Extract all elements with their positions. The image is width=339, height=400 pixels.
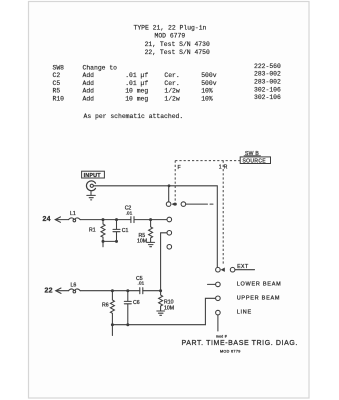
svg-text:C6: C6 bbox=[133, 300, 140, 306]
svg-text:Change to: Change to bbox=[83, 64, 118, 71]
svg-text:.01 µf: .01 µf bbox=[125, 80, 148, 87]
svg-text:222-560: 222-560 bbox=[254, 63, 281, 70]
svg-text:INPUT: INPUT bbox=[84, 173, 102, 179]
svg-text:As per schematic attached.: As per schematic attached. bbox=[84, 113, 184, 120]
svg-text:.01 µf: .01 µf bbox=[125, 72, 148, 79]
svg-text:PART. TIME-BASE TRIG. DIAG.: PART. TIME-BASE TRIG. DIAG. bbox=[182, 340, 298, 347]
svg-text:.01: .01 bbox=[138, 281, 145, 287]
svg-text:Add: Add bbox=[83, 80, 95, 87]
svg-text:Add: Add bbox=[83, 88, 95, 95]
svg-text:F: F bbox=[178, 165, 181, 171]
svg-text:TYPE 21, 22 Plug-in: TYPE 21, 22 Plug-in bbox=[134, 24, 207, 31]
svg-text:10 meg: 10 meg bbox=[125, 88, 148, 95]
svg-text:302-106: 302-106 bbox=[254, 86, 281, 93]
svg-text:10%: 10% bbox=[201, 96, 213, 103]
svg-text:EXT: EXT bbox=[237, 264, 249, 270]
svg-text:1/2w: 1/2w bbox=[164, 88, 180, 95]
svg-text:R: R bbox=[224, 164, 228, 170]
svg-text:L6: L6 bbox=[71, 282, 77, 288]
svg-text:500v: 500v bbox=[201, 80, 217, 87]
svg-text:1: 1 bbox=[219, 164, 222, 170]
svg-text:283-002: 283-002 bbox=[254, 79, 281, 86]
svg-text:283-002: 283-002 bbox=[254, 71, 281, 78]
svg-text:Add: Add bbox=[83, 96, 95, 103]
svg-text:.01: .01 bbox=[126, 210, 133, 216]
svg-text:UPPER BEAM: UPPER BEAM bbox=[237, 295, 281, 301]
svg-text:SW B: SW B bbox=[245, 151, 259, 157]
svg-text:C1: C1 bbox=[122, 228, 129, 234]
svg-text:SW8: SW8 bbox=[53, 64, 65, 71]
svg-text:22: 22 bbox=[45, 288, 53, 295]
svg-text:Cer.: Cer. bbox=[164, 72, 179, 79]
svg-text:302-106: 302-106 bbox=[254, 94, 281, 101]
svg-text:R1: R1 bbox=[89, 228, 96, 234]
svg-text:SOURCE: SOURCE bbox=[243, 159, 267, 165]
svg-text:24: 24 bbox=[43, 216, 51, 223]
svg-text:Cer.: Cer. bbox=[164, 80, 179, 87]
svg-text:C5: C5 bbox=[53, 80, 61, 87]
svg-text:R5: R5 bbox=[53, 88, 61, 95]
svg-text:22, Test S/N 4750: 22, Test S/N 4750 bbox=[145, 49, 210, 56]
svg-text:10M: 10M bbox=[164, 305, 174, 311]
svg-text:LINE: LINE bbox=[237, 310, 252, 316]
svg-text:LOWER BEAM: LOWER BEAM bbox=[237, 281, 282, 287]
svg-text:MOD 6779: MOD 6779 bbox=[220, 349, 241, 353]
svg-text:500v: 500v bbox=[201, 72, 217, 79]
svg-text:R6: R6 bbox=[102, 303, 109, 309]
svg-text:L1: L1 bbox=[70, 211, 76, 217]
svg-text:C2: C2 bbox=[53, 72, 61, 79]
svg-text:10 meg: 10 meg bbox=[125, 96, 148, 103]
svg-text:Add: Add bbox=[83, 72, 95, 79]
svg-text:21, Test S/N 4730: 21, Test S/N 4730 bbox=[145, 41, 210, 48]
svg-text:R10: R10 bbox=[53, 96, 65, 103]
svg-text:MOD 6779: MOD 6779 bbox=[155, 32, 186, 39]
svg-text:1/2w: 1/2w bbox=[164, 96, 180, 103]
svg-text:10%: 10% bbox=[201, 88, 213, 95]
svg-text:10M: 10M bbox=[137, 238, 147, 244]
svg-text:mod #: mod # bbox=[216, 334, 227, 338]
